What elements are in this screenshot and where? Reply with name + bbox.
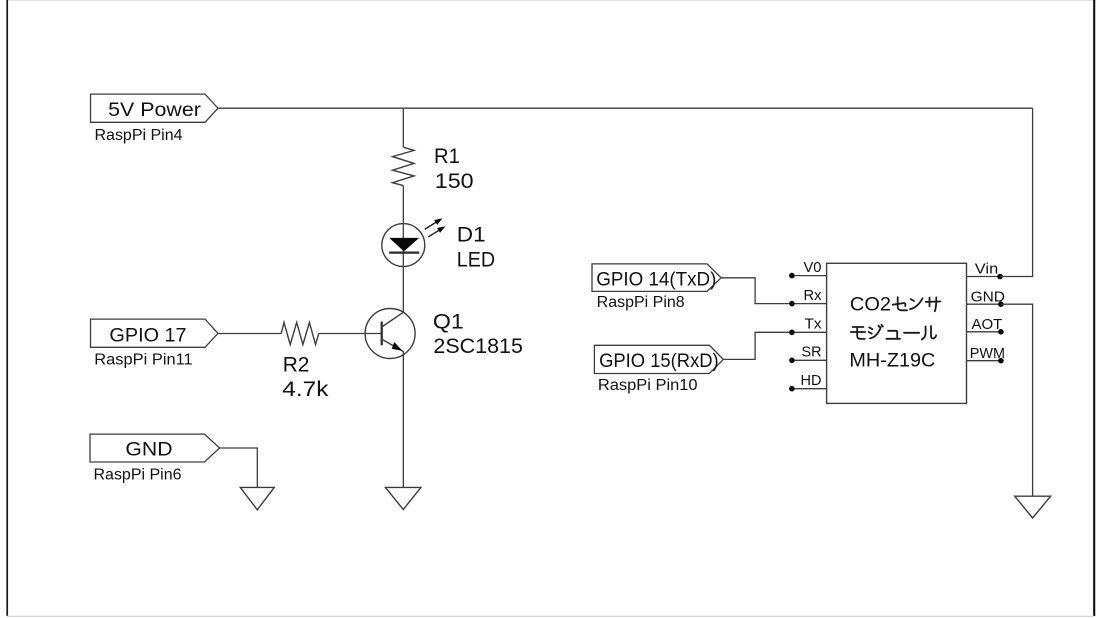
svg-text:Tx: Tx — [805, 317, 823, 333]
svg-text:R1: R1 — [434, 144, 460, 168]
svg-text:GPIO 17: GPIO 17 — [109, 326, 186, 347]
wire 5V to R1 — [402, 108, 404, 147]
svg-text:SR: SR — [802, 345, 822, 361]
pin PWM — [967, 346, 1006, 364]
svg-text:GND: GND — [125, 440, 172, 461]
wire GND flag to ground — [220, 448, 258, 487]
module text CO2 sensor line1 CO2センサ — [850, 294, 940, 316]
svg-text:Vin: Vin — [975, 262, 998, 278]
svg-text:GPIO 14(TxD): GPIO 14(TxD) — [596, 270, 716, 291]
wire R2 to Q1 base — [319, 333, 382, 335]
flag GPIO 14(TxD) — [592, 264, 721, 292]
ground at GND flag — [240, 487, 274, 509]
svg-text:GPIO 15(RxD): GPIO 15(RxD) — [599, 351, 719, 372]
pin HD — [789, 373, 826, 391]
IC module MH-Z19C body — [827, 263, 967, 403]
svg-text:RaspPi Pin10: RaspPi Pin10 — [598, 377, 698, 394]
svg-text:LED: LED — [457, 248, 495, 272]
power flag 5V Power — [91, 94, 219, 122]
resistor R1 — [393, 147, 415, 185]
svg-text:2SC1815: 2SC1815 — [433, 334, 523, 358]
pin Vin — [967, 262, 1003, 280]
ground at module GND — [1015, 496, 1051, 518]
svg-text:GND: GND — [971, 289, 1005, 305]
flag GPIO 17 — [91, 319, 219, 347]
label R2 value 4.7k — [282, 353, 328, 402]
wire R1 to LED and through LED to Q1 collector — [402, 186, 404, 313]
svg-text:RaspPi Pin6: RaspPi Pin6 — [94, 467, 182, 484]
svg-text:AOT: AOT — [972, 317, 1003, 333]
pin SR — [789, 345, 826, 363]
wire GPIO15 to Tx — [723, 332, 792, 359]
wire GPIO17 to R2 — [218, 333, 281, 335]
svg-text:Q1: Q1 — [433, 310, 464, 334]
svg-text:150: 150 — [435, 169, 474, 193]
wire Q1 emitter to ground — [402, 351, 404, 487]
pin V0 — [789, 260, 826, 278]
wire 5V bus to Vin — [1000, 108, 1033, 276]
pin Tx — [789, 317, 826, 335]
module text line2 モジュール — [851, 325, 937, 340]
transistor Q1 — [365, 309, 415, 359]
svg-text:PWM: PWM — [970, 346, 1005, 362]
svg-text:RaspPi Pin11: RaspPi Pin11 — [94, 352, 192, 369]
pin Rx — [789, 288, 826, 306]
svg-text:HD: HD — [801, 373, 822, 389]
wire GND pin to ground — [1001, 304, 1033, 496]
svg-text:D1: D1 — [457, 223, 486, 247]
label D1 LED — [457, 223, 495, 272]
svg-text:Rx: Rx — [804, 288, 823, 304]
svg-text:CO2: CO2 — [850, 294, 891, 316]
svg-text:MH-Z19C: MH-Z19C — [849, 349, 935, 371]
ground under Q1 — [385, 487, 421, 509]
flag GPIO 15(RxD) — [594, 345, 723, 373]
wire GPIO14 to Rx — [721, 278, 792, 304]
resistor R2 — [281, 322, 319, 344]
pin AOT — [967, 317, 1004, 335]
svg-text:RaspPi Pin4: RaspPi Pin4 — [95, 127, 183, 144]
svg-text:5V Power: 5V Power — [108, 100, 201, 121]
wire 5V bus top — [218, 107, 1033, 109]
pin GND — [967, 289, 1006, 307]
svg-text:V0: V0 — [804, 260, 822, 276]
svg-text:RaspPi Pin8: RaspPi Pin8 — [597, 294, 685, 311]
label R1 value 150 — [434, 144, 474, 193]
svg-text:4.7k: 4.7k — [282, 377, 328, 401]
LED D1 — [382, 218, 446, 266]
label Q1 2SC1815 — [433, 310, 523, 358]
svg-text:R2: R2 — [283, 353, 310, 377]
flag GND — [90, 434, 220, 462]
